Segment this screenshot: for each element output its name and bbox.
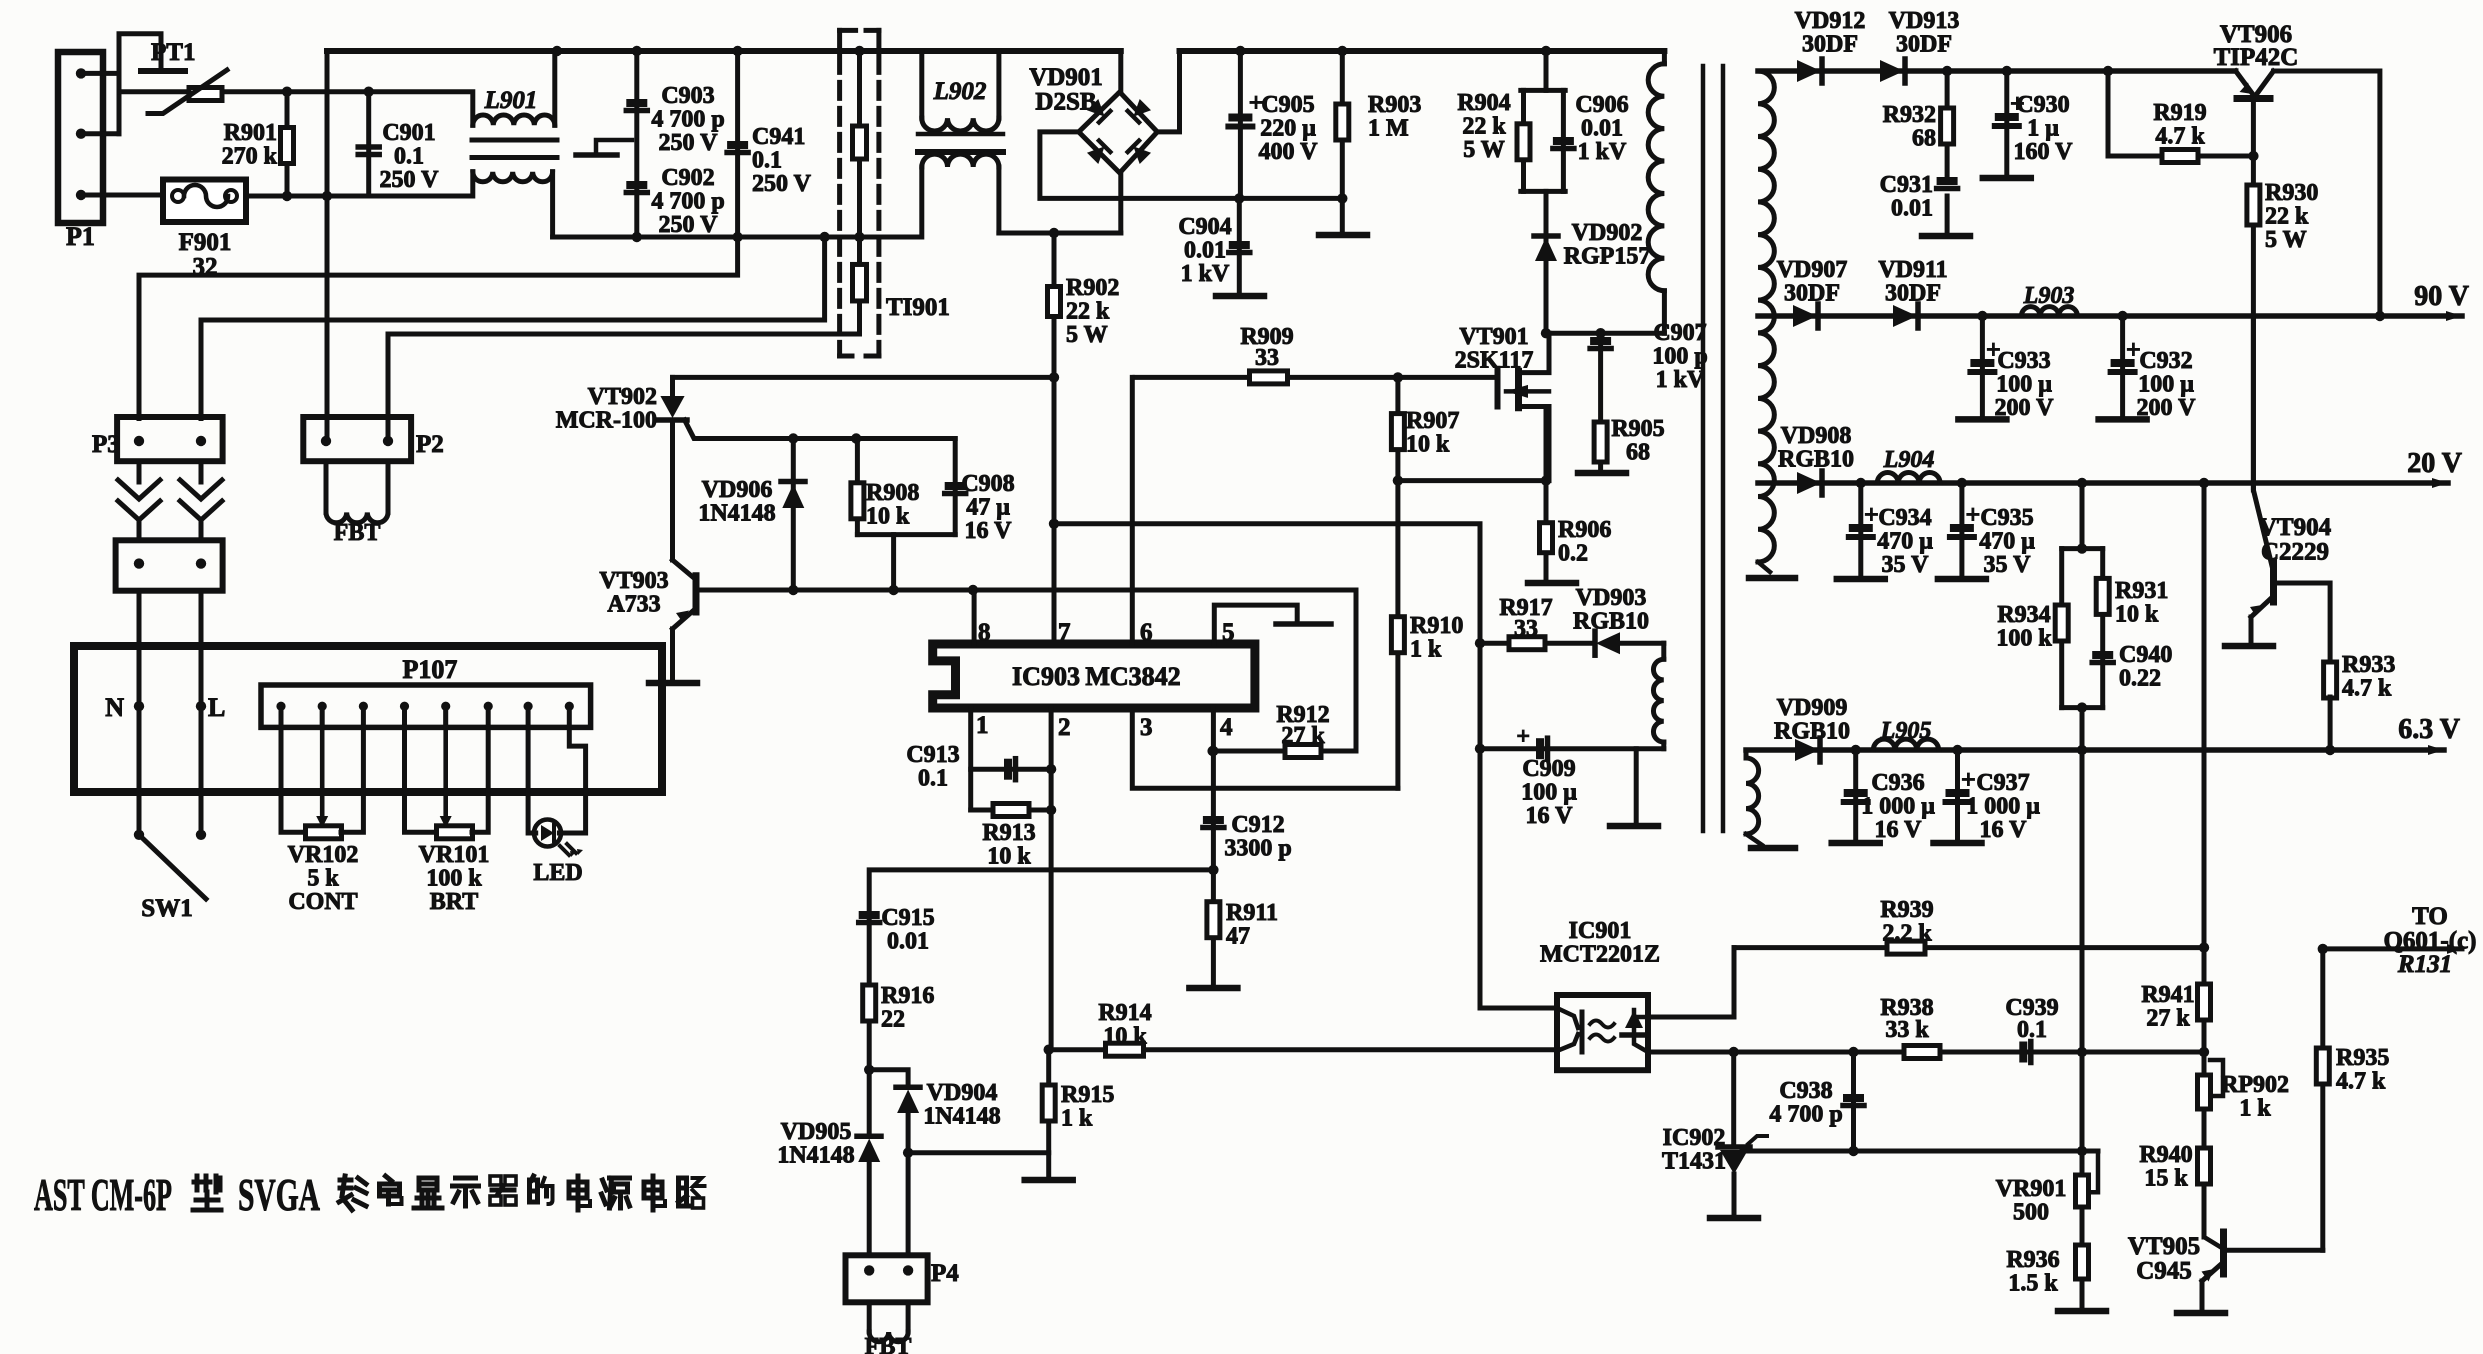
capacitor C905 bbox=[1238, 51, 1243, 198]
secondary winding lower bbox=[1744, 750, 1749, 758]
resistor R919 bbox=[2162, 150, 2198, 163]
svg-text:R936: R936 bbox=[2006, 1247, 2059, 1273]
svg-text:TIP42C: TIP42C bbox=[2214, 44, 2299, 71]
inductor L901 bbox=[473, 115, 555, 125]
svg-text:R913: R913 bbox=[982, 820, 1035, 846]
svg-text:R914: R914 bbox=[1098, 1000, 1151, 1026]
IC901 phototransistor bbox=[1625, 1010, 1643, 1028]
svg-text:VD906: VD906 bbox=[702, 477, 773, 503]
svg-text:R935: R935 bbox=[2336, 1045, 2389, 1071]
svg-text:VD904: VD904 bbox=[927, 1080, 998, 1106]
resistor R913 bbox=[971, 808, 1051, 813]
svg-text:L903: L903 bbox=[2023, 283, 2075, 309]
resistor R907 bbox=[1395, 377, 1400, 788]
svg-text:30DF: 30DF bbox=[1885, 281, 1941, 307]
svg-text:33: 33 bbox=[1514, 616, 1538, 642]
wire to P2 pin2 bbox=[388, 301, 860, 441]
svg-text:0.1: 0.1 bbox=[918, 766, 948, 792]
diode VD908 bbox=[1797, 472, 1821, 494]
ground R905 bbox=[1578, 470, 1626, 477]
svg-text:5 W: 5 W bbox=[1066, 322, 1108, 348]
svg-text:250 V: 250 V bbox=[752, 171, 812, 197]
wire AC line segment 2 bbox=[1054, 231, 1121, 236]
svg-text:VT905: VT905 bbox=[2128, 1233, 2200, 1260]
svg-text:R931: R931 bbox=[2115, 578, 2168, 604]
svg-text:C934: C934 bbox=[1878, 505, 1931, 531]
svg-text:R932: R932 bbox=[1883, 102, 1936, 128]
ground C936 bbox=[1832, 840, 1880, 847]
svg-text:1 k: 1 k bbox=[1410, 637, 1442, 663]
svg-text:500: 500 bbox=[2013, 1200, 2049, 1226]
svg-text:R933: R933 bbox=[2342, 652, 2395, 678]
primary winding bbox=[1662, 51, 1667, 64]
svg-text:68: 68 bbox=[1912, 126, 1936, 152]
svg-text:4.7 k: 4.7 k bbox=[2342, 676, 2392, 702]
resistor R908 bbox=[855, 439, 860, 535]
ground C931 bbox=[1922, 233, 1970, 240]
svg-text:15 k: 15 k bbox=[2144, 1166, 2188, 1192]
base lead VT906 bbox=[2251, 99, 2256, 157]
svg-text:6.3 V: 6.3 V bbox=[2398, 714, 2460, 745]
svg-text:IC902: IC902 bbox=[1663, 1125, 1726, 1151]
svg-text:2.2 k: 2.2 k bbox=[1882, 921, 1932, 947]
svg-text:0.1: 0.1 bbox=[394, 144, 424, 170]
svg-text:6: 6 bbox=[1140, 619, 1153, 646]
pot VR101 bbox=[405, 727, 438, 832]
capacitor C909 bbox=[1536, 738, 1544, 759]
svg-text:MCR-100: MCR-100 bbox=[556, 408, 657, 434]
svg-text:P107: P107 bbox=[403, 655, 458, 684]
svg-text:10 k: 10 k bbox=[2115, 602, 2159, 628]
svg-text:C938: C938 bbox=[1779, 1078, 1832, 1104]
svg-text:R908: R908 bbox=[866, 480, 919, 506]
svg-text:VD913: VD913 bbox=[1889, 8, 1960, 34]
svg-text:100 k: 100 k bbox=[426, 866, 482, 892]
degauss plug chevrons bbox=[137, 461, 142, 482]
svg-text:20 V: 20 V bbox=[2407, 448, 2462, 479]
svg-text:100 p: 100 p bbox=[1652, 344, 1707, 370]
pin 2 lead bbox=[1049, 708, 1054, 1050]
inductor L902 bbox=[919, 51, 924, 118]
svg-text:16 V: 16 V bbox=[1526, 803, 1574, 829]
pot RP902 bbox=[2198, 1075, 2211, 1109]
svg-text:33: 33 bbox=[1255, 345, 1279, 371]
capacitor C933 bbox=[1980, 316, 1985, 417]
TI901 winding lower bbox=[853, 264, 867, 301]
svg-text:100 μ: 100 μ bbox=[1521, 780, 1577, 806]
connector P2 bbox=[303, 417, 411, 461]
svg-text:L905: L905 bbox=[1880, 718, 1932, 744]
svg-text:C908: C908 bbox=[961, 471, 1014, 497]
capacitor C935 bbox=[1959, 483, 1964, 577]
ground IC902 bbox=[1710, 1215, 1758, 1222]
P107 pin wires bbox=[279, 706, 284, 727]
resistor R941 bbox=[2198, 984, 2211, 1020]
svg-text:3300 p: 3300 p bbox=[1224, 836, 1291, 862]
svg-text:D2SB: D2SB bbox=[1035, 89, 1096, 116]
ground R906 bbox=[1528, 580, 1576, 587]
diode VD911 bbox=[1893, 305, 1917, 327]
pot VR901 bbox=[2076, 1175, 2089, 1207]
ground VT903 bbox=[649, 680, 697, 687]
capacitor C939 bbox=[2019, 1042, 2027, 1063]
svg-text:R131: R131 bbox=[2397, 951, 2452, 978]
divider sense vertical bbox=[2080, 708, 2085, 1311]
svg-text:VD908: VD908 bbox=[1781, 423, 1852, 449]
capacitor C934 bbox=[1858, 483, 1863, 577]
svg-text:3: 3 bbox=[1140, 714, 1153, 741]
wire ac bus lower bbox=[553, 235, 918, 240]
resistor R905 bbox=[1594, 422, 1607, 462]
svg-text:35 V: 35 V bbox=[1984, 552, 2032, 578]
collector wire VT906 bbox=[2274, 71, 2380, 316]
resistor R911 bbox=[1211, 870, 1216, 986]
resistor R930 bbox=[2251, 156, 2256, 490]
svg-text:VD911: VD911 bbox=[1878, 257, 1947, 283]
svg-text:90 V: 90 V bbox=[2414, 281, 2469, 312]
capacitor C907 bbox=[1598, 333, 1603, 471]
ground C904 bbox=[1216, 293, 1264, 300]
capacitor C915 bbox=[859, 911, 880, 919]
wire R910 to pin3 bbox=[1132, 708, 1398, 788]
svg-text:+: + bbox=[1516, 724, 1530, 750]
base wire VT903 bbox=[698, 588, 1356, 593]
svg-text:4 700 p: 4 700 p bbox=[651, 189, 724, 215]
svg-text:R916: R916 bbox=[881, 983, 934, 1009]
svg-text:VD901: VD901 bbox=[1029, 64, 1103, 91]
svg-text:R902: R902 bbox=[1066, 275, 1119, 301]
wire bridge top to frame bbox=[1118, 51, 1123, 92]
base wire VT904 bbox=[2274, 583, 2331, 663]
pin 6 lead bbox=[1130, 377, 1135, 644]
svg-text:5: 5 bbox=[1222, 619, 1235, 646]
svg-text:VT901: VT901 bbox=[1459, 324, 1528, 350]
svg-text:+: + bbox=[1864, 500, 1879, 529]
capacitor C913 bbox=[971, 767, 1051, 772]
chassis box bbox=[74, 646, 662, 792]
svg-text:R907: R907 bbox=[1406, 408, 1459, 434]
svg-text:R901: R901 bbox=[224, 120, 277, 146]
svg-text:C901: C901 bbox=[382, 120, 435, 146]
pin 4 lead bbox=[1211, 708, 1216, 870]
svg-text:C905: C905 bbox=[1261, 92, 1314, 118]
svg-text:T1431: T1431 bbox=[1662, 1149, 1726, 1175]
svg-text:L904: L904 bbox=[1883, 447, 1935, 473]
FBT winding P2 bbox=[324, 461, 329, 512]
svg-text:C913: C913 bbox=[906, 742, 959, 768]
svg-text:1 μ: 1 μ bbox=[2027, 116, 2059, 142]
svg-text:VD907: VD907 bbox=[1777, 257, 1848, 283]
wire drain node bbox=[1546, 331, 1664, 336]
connector P3 bbox=[117, 417, 223, 461]
svg-text:0.1: 0.1 bbox=[752, 148, 782, 174]
svg-text:C935: C935 bbox=[1980, 505, 2033, 531]
diode VD913 bbox=[1880, 60, 1904, 82]
svg-text:10 k: 10 k bbox=[1406, 432, 1450, 458]
ground R911 bbox=[1189, 985, 1237, 992]
svg-text:VD905: VD905 bbox=[781, 1119, 852, 1145]
svg-text:RP902: RP902 bbox=[2221, 1072, 2289, 1098]
inductor L905 bbox=[1873, 739, 1938, 750]
gate wire VT902 bbox=[685, 420, 956, 439]
svg-text:MC3842: MC3842 bbox=[1085, 662, 1180, 691]
ground C933 bbox=[1958, 416, 2006, 423]
wire mains live bbox=[119, 89, 189, 94]
transformer T core bbox=[1701, 66, 1706, 831]
svg-text:R940: R940 bbox=[2139, 1142, 2192, 1168]
svg-text:1 000 μ: 1 000 μ bbox=[1861, 794, 1935, 820]
svg-text:L: L bbox=[208, 693, 225, 722]
svg-text:R941: R941 bbox=[2141, 982, 2194, 1008]
svg-text:TO: TO bbox=[2412, 903, 2448, 930]
svg-text:C915: C915 bbox=[881, 905, 934, 931]
svg-text:1: 1 bbox=[976, 712, 989, 739]
resistor R915 bbox=[1046, 1050, 1051, 1178]
svg-text:100 μ: 100 μ bbox=[1996, 372, 2052, 398]
resistor R914 bbox=[1049, 1047, 1557, 1052]
svg-text:IC903: IC903 bbox=[1012, 662, 1080, 691]
capacitor C940 bbox=[2092, 651, 2113, 659]
svg-text:VD903: VD903 bbox=[1576, 585, 1647, 611]
svg-text:1 kV: 1 kV bbox=[1656, 367, 1705, 393]
wire base to R912 bbox=[1354, 590, 1359, 751]
svg-text:100 μ: 100 μ bbox=[2138, 372, 2194, 398]
svg-text:R911: R911 bbox=[1226, 900, 1278, 926]
svg-text:L902: L902 bbox=[933, 78, 987, 105]
feedback winding bbox=[1661, 643, 1666, 659]
diode VD906 bbox=[791, 439, 796, 591]
wire bridge right to frame bbox=[1157, 51, 1179, 132]
connector P107 bbox=[261, 685, 591, 727]
capacitor C938 bbox=[1851, 1052, 1856, 1151]
gnd wire C915 R916 bbox=[869, 870, 1213, 1070]
svg-text:C931: C931 bbox=[1880, 172, 1933, 198]
wire SCR anode bbox=[673, 375, 1055, 380]
resistor R934 bbox=[2059, 549, 2064, 708]
svg-text:250 V: 250 V bbox=[380, 167, 440, 193]
ground C934 bbox=[1837, 576, 1885, 583]
wire top frame right bbox=[1180, 48, 1665, 54]
svg-text:VT902: VT902 bbox=[588, 384, 657, 410]
svg-text:PT1: PT1 bbox=[151, 39, 195, 66]
diode VD904 bbox=[869, 1070, 908, 1088]
IC902 TL431 bbox=[1718, 1144, 1750, 1150]
node R901 top bbox=[282, 87, 292, 97]
transistor VT901 2SK117 bbox=[1495, 369, 1501, 407]
ground VT905 bbox=[2177, 1310, 2225, 1317]
wire fuse to L901 bbox=[246, 172, 473, 196]
resistor R917 bbox=[1480, 641, 1595, 646]
svg-text:IC901: IC901 bbox=[1569, 918, 1632, 944]
capacitor C904 bbox=[1237, 198, 1242, 294]
svg-text:4.7 k: 4.7 k bbox=[2155, 124, 2205, 150]
svg-text:C909: C909 bbox=[1522, 756, 1575, 782]
transistor VT903 A733 bbox=[693, 576, 700, 612]
svg-text:0.01: 0.01 bbox=[1891, 196, 1933, 222]
svg-text:0.22: 0.22 bbox=[2119, 666, 2161, 692]
source wire bbox=[1398, 478, 1546, 483]
resistor R912 bbox=[1213, 749, 1356, 754]
wire top frame to P2 pin1 bbox=[325, 51, 330, 441]
svg-text:R903: R903 bbox=[1368, 92, 1421, 118]
svg-text:47 μ: 47 μ bbox=[966, 495, 1010, 521]
pin 8 lead bbox=[972, 590, 977, 644]
wires to N L bbox=[137, 591, 142, 835]
capacitor C912 bbox=[1203, 816, 1224, 824]
VR901 wiper tap bbox=[2088, 1151, 2098, 1192]
svg-text:C912: C912 bbox=[1231, 812, 1284, 838]
svg-text:VD909: VD909 bbox=[1777, 695, 1848, 721]
IC901 LED bbox=[1580, 1012, 1585, 1052]
resistor R916 bbox=[863, 985, 876, 1021]
wire L902 to bridge bottom bbox=[999, 173, 1121, 233]
svg-text:SVGA: SVGA bbox=[238, 1169, 320, 1220]
svg-text:4 700 p: 4 700 p bbox=[1769, 1102, 1842, 1128]
svg-text:C940: C940 bbox=[2119, 642, 2172, 668]
svg-text:+: + bbox=[1966, 500, 1981, 529]
svg-text:C904: C904 bbox=[1178, 214, 1231, 240]
resistor R901 bbox=[285, 92, 290, 196]
svg-text:VD902: VD902 bbox=[1572, 220, 1643, 246]
svg-text:8: 8 bbox=[978, 619, 991, 646]
svg-text:R934: R934 bbox=[1997, 602, 2050, 628]
svg-text:C937: C937 bbox=[1976, 770, 2029, 796]
capacitor C937 bbox=[1955, 750, 1960, 841]
svg-text:27 k: 27 k bbox=[1281, 723, 1325, 749]
svg-text:22 k: 22 k bbox=[1066, 299, 1110, 325]
resistor R910 bbox=[1391, 617, 1404, 653]
secondary winding upper bbox=[1758, 71, 1774, 562]
svg-text:5 k: 5 k bbox=[307, 866, 339, 892]
snubber R904 C906 bbox=[1544, 51, 1549, 90]
svg-text:250 V: 250 V bbox=[659, 130, 719, 156]
svg-text:RGB10: RGB10 bbox=[1573, 609, 1649, 635]
wire bridge left to negative rail bbox=[1040, 132, 1342, 199]
thermistor PT1 bbox=[189, 88, 222, 101]
ground R903 bbox=[1340, 198, 1345, 233]
diode VD903 bbox=[1596, 632, 1620, 654]
svg-text:R906: R906 bbox=[1558, 517, 1611, 543]
svg-text:1N4148: 1N4148 bbox=[777, 1143, 854, 1169]
svg-text:R919: R919 bbox=[2153, 100, 2206, 126]
node C901 top bbox=[364, 87, 374, 97]
pin 5 lead bbox=[1214, 605, 1297, 644]
svg-text:A733: A733 bbox=[607, 592, 660, 618]
gate wire R909 bbox=[1135, 375, 1498, 380]
svg-text:0.01: 0.01 bbox=[1581, 116, 1623, 142]
svg-text:R905: R905 bbox=[1611, 416, 1664, 442]
svg-text:30DF: 30DF bbox=[1802, 32, 1858, 58]
svg-text:VD912: VD912 bbox=[1795, 8, 1866, 34]
svg-text:C903: C903 bbox=[661, 83, 714, 109]
resistor R909 bbox=[1250, 371, 1288, 384]
resistor R906 bbox=[1544, 407, 1549, 584]
capacitor C908 bbox=[953, 439, 958, 535]
svg-text:1 k: 1 k bbox=[1061, 1106, 1093, 1132]
svg-text:400 V: 400 V bbox=[1259, 139, 1319, 165]
svg-text:0.2: 0.2 bbox=[1558, 541, 1588, 567]
svg-text:33 k: 33 k bbox=[1885, 1017, 1929, 1043]
resistor R936 bbox=[2076, 1245, 2089, 1279]
wire 20V to R941 bbox=[2202, 483, 2207, 1237]
svg-text:16 V: 16 V bbox=[965, 518, 1013, 544]
svg-text:16 V: 16 V bbox=[1980, 817, 2028, 843]
svg-text:C906: C906 bbox=[1575, 92, 1628, 118]
wire opto collector to R939 bbox=[1648, 948, 1734, 1017]
connector P4 bbox=[846, 1255, 928, 1302]
svg-text:47: 47 bbox=[1226, 924, 1250, 950]
svg-text:FBT: FBT bbox=[865, 1334, 912, 1354]
svg-text:0.01: 0.01 bbox=[1184, 238, 1226, 264]
thyristor VT902 MCR-100 bbox=[670, 377, 675, 396]
svg-text:1 M: 1 M bbox=[1368, 116, 1409, 142]
capacitor C901 bbox=[366, 92, 371, 196]
svg-text:7: 7 bbox=[1058, 619, 1071, 646]
wire to Q601 bbox=[2318, 944, 2328, 954]
svg-text:470 μ: 470 μ bbox=[1979, 529, 2035, 555]
svg-text:RGP157: RGP157 bbox=[1564, 244, 1651, 270]
svg-text:C907: C907 bbox=[1653, 320, 1706, 346]
svg-text:C932: C932 bbox=[2139, 348, 2192, 374]
switch SW1 bbox=[139, 835, 206, 899]
capacitor C931 bbox=[1937, 177, 1958, 185]
resistor R932 bbox=[1945, 71, 1950, 180]
IC901 MCT2201Z box bbox=[1557, 995, 1648, 1070]
svg-text:270 k: 270 k bbox=[222, 144, 278, 170]
resistor R938 bbox=[1904, 1046, 1940, 1059]
svg-text:BRT: BRT bbox=[430, 889, 479, 915]
svg-text:1 k: 1 k bbox=[2239, 1096, 2271, 1122]
svg-text:30DF: 30DF bbox=[1784, 281, 1840, 307]
core ground tab bbox=[596, 140, 632, 153]
svg-text:22 k: 22 k bbox=[2265, 204, 2309, 230]
wire P1 pin3 to fuse bbox=[81, 193, 163, 198]
diode VD902 bbox=[1544, 191, 1549, 333]
capacitor C903 bbox=[634, 51, 639, 237]
resistor R902 bbox=[1052, 233, 1057, 644]
connector P1 bbox=[58, 52, 103, 223]
svg-text:R915: R915 bbox=[1061, 1082, 1114, 1108]
ground C930 bbox=[1983, 175, 2031, 182]
svg-text:LED: LED bbox=[533, 860, 582, 886]
ground C932 bbox=[2099, 416, 2147, 423]
svg-text:CONT: CONT bbox=[288, 889, 357, 915]
ground C935 bbox=[1938, 576, 1986, 583]
capacitor C932 bbox=[2120, 316, 2125, 417]
pot VR102 bbox=[281, 727, 306, 832]
ground R915 bbox=[1025, 1177, 1073, 1184]
svg-text:C941: C941 bbox=[752, 124, 805, 150]
wire opto emitter feedback bbox=[1648, 1050, 2204, 1055]
svg-text:30DF: 30DF bbox=[1896, 32, 1952, 58]
svg-text:MCT2201Z: MCT2201Z bbox=[1540, 942, 1660, 968]
svg-text:R904: R904 bbox=[1457, 90, 1510, 116]
node divider TL431 bbox=[2077, 1146, 2087, 1156]
svg-text:FBT: FBT bbox=[334, 520, 381, 546]
svg-text:P1: P1 bbox=[66, 222, 95, 251]
svg-text:+: + bbox=[1961, 765, 1976, 794]
svg-text:68: 68 bbox=[1626, 440, 1650, 466]
svg-text:F901: F901 bbox=[179, 229, 232, 256]
svg-text:4 700 p: 4 700 p bbox=[651, 107, 724, 133]
wire C909 bbox=[1480, 746, 1664, 751]
svg-text:0.01: 0.01 bbox=[887, 929, 929, 955]
wire top frame left bbox=[327, 48, 1121, 54]
ground VT904 bbox=[2225, 643, 2273, 650]
wire P1 pin1 jumper bbox=[81, 71, 119, 76]
svg-text:C930: C930 bbox=[2016, 92, 2069, 118]
svg-text:C936: C936 bbox=[1871, 770, 1924, 796]
